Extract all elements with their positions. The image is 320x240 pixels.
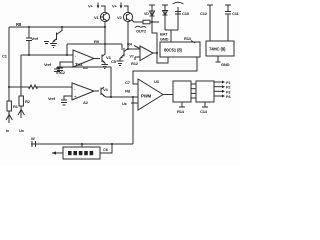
capacitor C4 under V3: [102, 63, 109, 69]
svg-text:80C51 (8): 80C51 (8): [164, 48, 182, 53]
svg-text:R1: R1: [13, 104, 19, 109]
capacitor C10: [173, 2, 190, 30]
wire bottom rail riser: [132, 97, 134, 144]
svg-text:R12: R12: [131, 61, 139, 66]
op-amp A1: [73, 50, 94, 70]
svg-text:P3: P3: [226, 90, 230, 94]
wire box right pin: [100, 144, 112, 153]
node junction dot x29 mid rail: [28, 54, 30, 56]
wire V2 collector to Vcc: [124, 6, 128, 12]
svg-text:R9: R9: [94, 39, 100, 44]
wire V7 to comparator: [128, 48, 140, 50]
wire mid rail 1: [21, 54, 73, 56]
wire V1 collector to Vcc: [101, 6, 105, 12]
comparator U3 PWM: [138, 79, 163, 110]
resistor R10 base OUT2: [132, 20, 159, 28]
svg-text:A2: A2: [83, 100, 89, 105]
resistor R1 inline: [7, 101, 19, 111]
svg-text:Ix: Ix: [6, 128, 10, 133]
node junction dot x9 y87: [8, 86, 10, 88]
output arrow P3: [214, 90, 230, 94]
svg-text:C14: C14: [200, 109, 208, 114]
node feedback corner x67: [66, 44, 68, 55]
svg-text:74HC (8): 74HC (8): [209, 47, 226, 52]
power Vcc arrow label V2: [112, 3, 122, 9]
svg-text:U3: U3: [154, 79, 160, 84]
capacitor Vref A2: [61, 100, 67, 105]
svg-text:V2: V2: [117, 15, 122, 20]
svg-text:P4: P4: [226, 95, 231, 99]
output arrow P1: [214, 81, 230, 85]
svg-text:Vref: Vref: [31, 36, 39, 41]
capacitor C11: [225, 5, 239, 41]
ground stub U5: [177, 102, 185, 114]
svg-text:C2: C2: [60, 70, 66, 75]
svg-text:V+: V+: [112, 4, 117, 9]
resistor R2 inline: [19, 96, 31, 106]
svg-text:R2: R2: [25, 99, 31, 104]
ground stub U6: [200, 102, 208, 114]
node junction dot x29: [28, 26, 30, 28]
wire U2 bottom bus to PWM: [133, 57, 197, 84]
transistor V2 current source top: [123, 12, 132, 21]
diode VD7: [144, 5, 157, 53]
svg-text:C7: C7: [125, 80, 131, 85]
wire bus U5-U6 line1: [191, 83, 196, 85]
capacitor C2 feedback: [54, 67, 66, 75]
wire A2 lower input: [64, 96, 72, 100]
input arrow Ux: [18, 106, 25, 133]
svg-text:GND: GND: [221, 62, 230, 67]
wire A2 feedback vertical: [110, 67, 112, 97]
svg-text:C12: C12: [200, 11, 208, 16]
svg-text:PWM: PWM: [141, 94, 152, 99]
wire A2 output to PWM: [106, 96, 138, 98]
svg-text:C10: C10: [182, 11, 190, 16]
power Vcc arrow label V1: [88, 3, 99, 9]
svg-text:R14: R14: [177, 109, 185, 114]
svg-text:V+: V+: [88, 4, 93, 9]
IC U2 MCU box: [160, 42, 200, 57]
svg-text:P1: P1: [226, 81, 230, 85]
svg-text:V1: V1: [94, 15, 99, 20]
resistor R13 label with lead: [184, 36, 195, 43]
capacitor C1: [26, 27, 32, 55]
diode VD5 rail: [162, 5, 168, 30]
wire A2 feedback top R11: [57, 66, 111, 68]
wire mid rail 2 R7: [9, 85, 72, 89]
transistor V3 after A1: [94, 44, 111, 63]
svg-text:C6: C6: [103, 147, 109, 152]
capacitor C3 small: [44, 42, 49, 44]
capacitor Vref A1: [57, 68, 63, 73]
svg-text:-: -: [75, 53, 77, 58]
wire bus U5-U6 line3: [191, 92, 196, 94]
label Uc with stub: [122, 101, 138, 106]
wire C12 rail to U4: [200, 5, 213, 41]
transistor V4 after A2: [94, 87, 108, 97]
svg-text:R4: R4: [127, 42, 133, 47]
wire bottom rail: [31, 143, 133, 145]
svg-text:R13: R13: [184, 36, 192, 41]
svg-text:C1: C1: [2, 54, 8, 59]
wire into U2 top: [165, 29, 178, 31]
transistor V7 driver: [120, 44, 128, 61]
ground under U4: [216, 56, 230, 67]
wire V1 emitter down: [104, 22, 106, 55]
svg-text:FB: FB: [125, 89, 130, 94]
svg-text:R8: R8: [16, 22, 22, 27]
wire PWM output: [163, 94, 173, 96]
svg-text:Vref: Vref: [48, 96, 56, 101]
svg-text:P2: P2: [226, 86, 230, 90]
wire bus U5-U6 line4: [191, 97, 196, 99]
op-amp A2: [72, 83, 94, 105]
svg-text:Ux: Ux: [19, 128, 25, 133]
node junction dot x105 y27: [104, 26, 106, 28]
svg-text:C11: C11: [232, 11, 239, 16]
node junction dot x128 y49: [127, 48, 129, 50]
node top-left corner: [8, 27, 10, 101]
svg-text:OUT2: OUT2: [136, 29, 147, 34]
connector W1 ticks: [31, 136, 36, 147]
output arrow P4: [214, 95, 231, 99]
IC U6 output block: [196, 81, 214, 102]
IC U5 driver block: [173, 81, 191, 102]
wire bus U5-U6 line2: [191, 88, 196, 90]
IC constant-current box: [63, 147, 100, 159]
svg-text:W: W: [31, 136, 35, 141]
wire A1 lower input: [60, 62, 73, 68]
svg-text:GND: GND: [160, 37, 169, 42]
capacitor C5 under V7: [111, 59, 124, 66]
node junction dot output OUT1: [156, 52, 158, 54]
op-amp N1 OUT1: [140, 46, 153, 61]
node V2 top corner: [20, 55, 22, 96]
wire V2 emitter down: [127, 22, 129, 49]
wire box top pin: [81, 144, 83, 147]
input arrow Ix: [6, 111, 12, 133]
svg-text:Vref: Vref: [44, 62, 52, 67]
svg-text:-: -: [74, 86, 76, 91]
svg-text:VD: VD: [144, 12, 149, 16]
wire N1 output to U2: [153, 53, 168, 63]
IC U4 display box: [206, 41, 234, 56]
svg-text:Uc: Uc: [122, 101, 128, 106]
node junction dot x62: [61, 26, 63, 28]
svg-text:R11: R11: [76, 62, 83, 67]
svg-text:C5: C5: [111, 59, 117, 64]
wire top rail: [9, 26, 105, 28]
svg-text:V4: V4: [103, 87, 108, 92]
wire box left pin arrow: [52, 151, 63, 154]
node junction dot x133 y97: [132, 96, 134, 98]
node junction dot x105 y44: [104, 43, 106, 45]
svg-text:V7: V7: [130, 55, 134, 59]
transistor V1 current source top: [100, 12, 109, 21]
wire N1 lower input stub: [135, 56, 140, 58]
output arrow P2: [214, 85, 230, 89]
wire A1 feedback rail R9: [67, 43, 122, 45]
resistor R4 label with lead: [127, 42, 140, 49]
transistor VD4 reference: [50, 27, 62, 48]
